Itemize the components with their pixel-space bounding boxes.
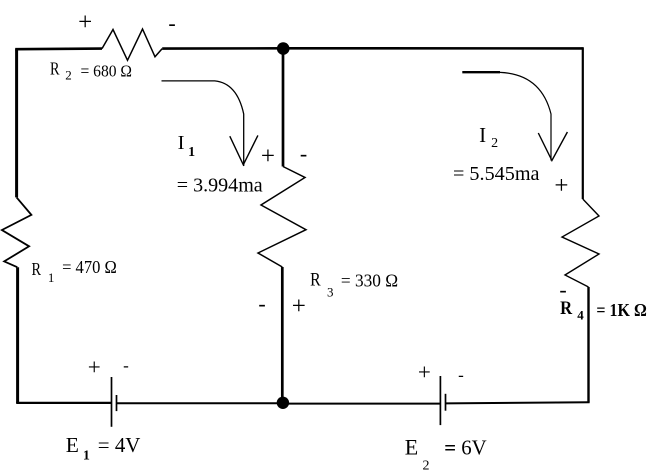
svg-text:3: 3 <box>327 285 334 300</box>
svg-text:-: - <box>123 356 129 375</box>
svg-text:2: 2 <box>65 68 72 83</box>
svg-text:E: E <box>66 433 79 457</box>
svg-text:+: + <box>418 359 431 384</box>
svg-text:-: - <box>168 11 175 36</box>
svg-text:+: + <box>292 293 306 320</box>
svg-text:-: - <box>458 365 464 384</box>
svg-text:= 330 Ω: = 330 Ω <box>341 270 398 290</box>
svg-text:+: + <box>78 9 92 36</box>
svg-text:+: + <box>554 172 568 199</box>
svg-text:= 680 Ω: = 680 Ω <box>81 62 133 81</box>
svg-text:R: R <box>50 58 60 78</box>
svg-text:I: I <box>178 132 185 154</box>
svg-text:= 470 Ω: = 470 Ω <box>62 257 117 277</box>
svg-text:2: 2 <box>491 136 498 151</box>
svg-text:= 4V: = 4V <box>98 433 141 457</box>
svg-text:1: 1 <box>48 270 55 285</box>
svg-text:-: - <box>258 291 265 316</box>
svg-text:R: R <box>560 298 572 319</box>
svg-text:I: I <box>479 123 486 147</box>
svg-text:1: 1 <box>188 145 195 160</box>
svg-text:E: E <box>405 434 418 459</box>
svg-text:= 5.545ma: = 5.545ma <box>453 163 540 185</box>
svg-text:R: R <box>32 259 42 279</box>
svg-text:1: 1 <box>83 449 90 464</box>
svg-text:2: 2 <box>423 459 430 473</box>
svg-text:-: - <box>300 141 307 166</box>
svg-text:4: 4 <box>577 308 584 323</box>
svg-text:= 1K Ω: = 1K Ω <box>596 300 646 320</box>
svg-text:+: + <box>261 143 275 170</box>
svg-text:= 6V: = 6V <box>444 435 487 459</box>
svg-text:+: + <box>88 354 101 379</box>
svg-text:R: R <box>310 270 321 291</box>
svg-text:= 3.994ma: = 3.994ma <box>177 175 263 197</box>
